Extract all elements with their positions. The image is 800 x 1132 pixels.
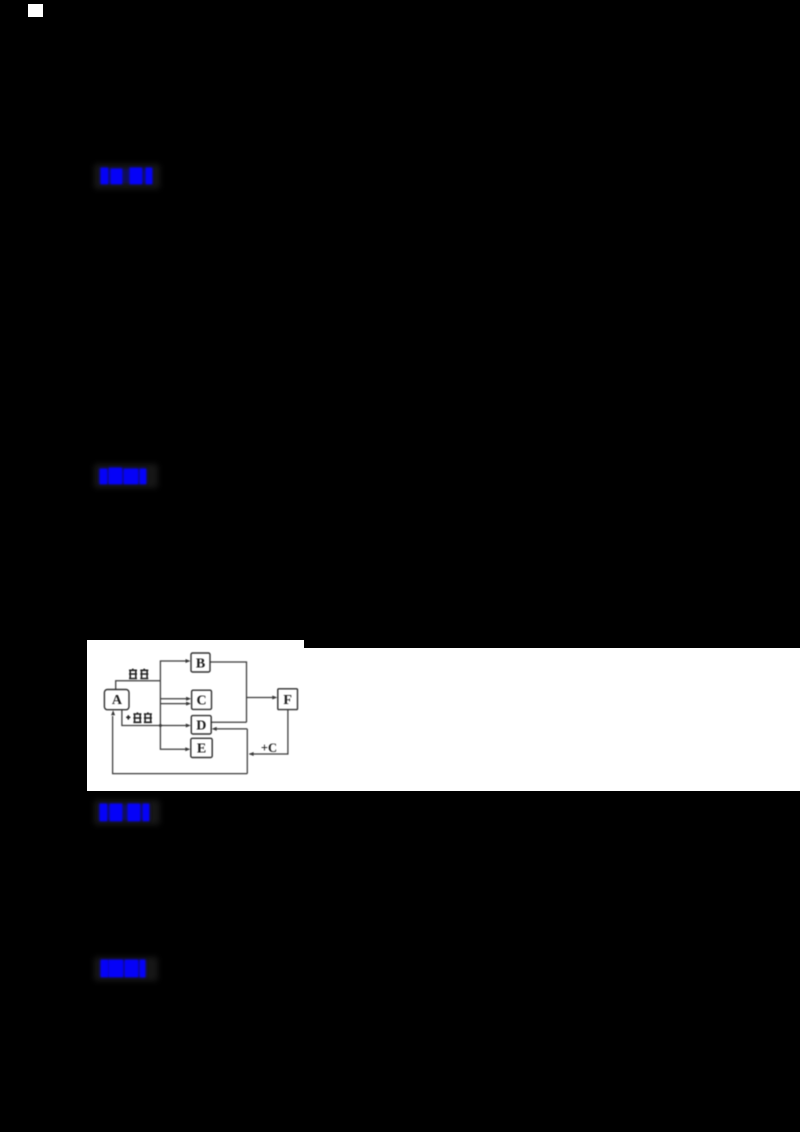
blue label 1 【分析】 [101,169,152,183]
small white inline image top-left [28,4,43,17]
arrowhead into F [272,696,277,700]
高温 text (glyph-like marks) [129,669,148,679]
wire F bottom +C loop [250,710,288,754]
wire A top to bus [116,681,161,690]
svg-text:C: C [197,694,207,709]
wire B right down [210,662,247,722]
+盐酸 text (glyph-like marks) [126,712,152,722]
wire bus up to B level [160,661,186,681]
svg-text:+C: +C [261,741,277,755]
wire F input [247,697,275,699]
arrowhead into C upper [186,697,191,701]
halo label 2 [94,464,158,488]
blue label 2 【解答】 [100,470,146,483]
arrowhead into D right [212,727,217,731]
flowchart SVG [87,640,304,791]
arrowhead into D left [186,724,191,728]
arrowhead into E [185,747,190,751]
svg-text:B: B [196,656,205,671]
svg-text:E: E [197,742,206,757]
wire tap to C lower [160,703,188,705]
svg-text:A: A [112,693,123,708]
halo label 3 [94,800,160,825]
box D [191,716,211,734]
blue label 3 【点评】 [100,805,149,820]
box E [191,738,212,757]
box C [192,690,212,709]
halo label 4 [94,957,158,981]
blue label 4 【点评】 [101,961,145,976]
svg-text:D: D [196,719,206,734]
arrowhead +C line left end [249,752,254,756]
arrowhead into A bottom [111,710,115,715]
white background strip (right part) [304,648,800,791]
box B [191,653,210,672]
box A [104,690,129,710]
arrowhead into B [186,659,191,663]
wire A bottom +盐酸 to D [122,710,188,726]
wire tap to C upper [160,698,188,700]
halo label 1 [94,164,160,189]
svg-text:F: F [283,693,292,708]
wire vertical right segment down [246,729,248,774]
wire D input from right [216,728,248,730]
wire D output right [211,721,246,723]
white background of diagram image (left part) [87,640,304,791]
junction dot bus x salt line [159,724,162,727]
wire bus down to E level [160,681,186,750]
wire bottom feedback loop [113,716,248,774]
arrowhead into C lower [186,702,191,706]
box F [278,689,298,710]
